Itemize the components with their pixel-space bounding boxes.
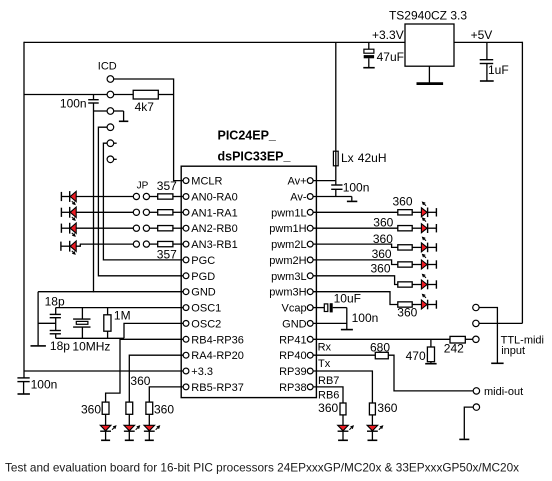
capacitor C3 1uF [480, 42, 494, 80]
wire D4 to jumper (jog) [76, 244, 133, 246]
resistor R7 360 [102, 402, 109, 414]
svg-text:TS2940CZ 3.3: TS2940CZ 3.3 [389, 9, 467, 23]
capacitor C1 100n (bottom left decoupling) [17, 378, 29, 394]
wire jumper to R5 [150, 243, 158, 245]
resistor R6 1M [104, 308, 111, 339]
ground (TTL input) [491, 362, 503, 364]
node AN3 header pin [60, 242, 62, 251]
wire header to D4 [61, 245, 70, 247]
resistor R19 242 [450, 336, 465, 343]
wire +3.3 rail to ICD pin2 [24, 94, 107, 96]
svg-text:RP39: RP39 [279, 366, 307, 378]
svg-text:100n: 100n [343, 180, 370, 194]
resistor R20 360 [369, 403, 375, 415]
LED D11 [421, 260, 427, 270]
svg-text:Vcap: Vcap [282, 303, 307, 315]
label 100n (Vcap net) [352, 311, 379, 325]
label Rx [318, 341, 332, 353]
wire Av- row [313, 197, 352, 201]
label R8 360 [130, 374, 150, 388]
wire D1 to jumper [76, 196, 133, 198]
svg-text:AN2-RB0: AN2-RB0 [191, 223, 237, 235]
arrow D1 light [72, 201, 75, 204]
ground (D14) [368, 439, 378, 441]
wire GND row [38, 291, 184, 293]
wire R15 to D13 [412, 304, 421, 306]
node AN2 header pin [60, 224, 62, 233]
wire R2 to pin [173, 196, 184, 198]
svg-text:360: 360 [370, 262, 390, 276]
svg-text:100n: 100n [352, 311, 379, 325]
LED D2 [70, 207, 77, 218]
svg-text:input: input [501, 345, 525, 357]
pin +3.3 (left 13) [183, 366, 213, 378]
svg-text:OSC2: OSC2 [191, 318, 221, 330]
jumper JP3 pins [133, 225, 149, 231]
svg-text:360: 360 [397, 305, 417, 319]
svg-text:Test and evaluation board for: Test and evaluation board for 16-bit PIC… [5, 461, 519, 475]
wire RA4 to R8 [129, 355, 183, 402]
wire pwm row 5 [313, 276, 398, 285]
svg-text:MCLR: MCLR [191, 176, 222, 188]
wire jumper to R2 [150, 196, 158, 198]
label ICD [98, 61, 117, 73]
label 680 [370, 340, 390, 354]
label R9 360 [154, 403, 174, 417]
pin pwm2L (right 5) [271, 239, 313, 251]
wire D3 to jumper [76, 227, 133, 229]
svg-text:RP41: RP41 [279, 334, 307, 346]
label RB7 [318, 375, 339, 387]
label R11 360 [373, 216, 393, 230]
op IC U1 PIC24EP/dsPIC33EP box [181, 166, 316, 397]
resistor R11 360 [398, 226, 412, 231]
wire jumper to R3 [150, 211, 158, 213]
wire R3 to pin [173, 211, 184, 213]
svg-text:18p: 18p [45, 294, 65, 308]
wire ICD pin4 to PGD [98, 127, 183, 276]
arrow D9 light [423, 218, 427, 222]
LED D3 [70, 223, 77, 234]
resistor R15 360 [398, 302, 412, 307]
wire OSC2 riser [124, 323, 184, 338]
resistor R18 470 [427, 347, 434, 362]
label R19 242 [444, 342, 464, 356]
wire D8 to header [428, 211, 437, 213]
wire R9 to D7 [148, 414, 150, 425]
wire R8 to D6 [128, 414, 130, 425]
caption text [5, 461, 519, 475]
svg-text:42uH: 42uH [358, 151, 387, 165]
pin AN3-RB1 (left 5) [183, 239, 238, 251]
label TTL-midi input [501, 335, 544, 357]
wire 18p branch top [55, 308, 57, 315]
resistor R3 357 [158, 210, 173, 215]
svg-text:pwm3L: pwm3L [271, 271, 306, 283]
wire junction down to C4 [93, 95, 95, 100]
regulator U2 TS2940CZ box [405, 24, 454, 66]
arrow D4 light [72, 251, 75, 254]
resistor R17 680 [375, 352, 388, 359]
svg-text:Av+: Av+ [288, 176, 307, 188]
svg-text:RB7: RB7 [318, 375, 339, 387]
LED D12 [421, 280, 427, 290]
wire pwm row 3 [313, 244, 398, 247]
wire +3.3V left rail [23, 42, 25, 378]
resistor R14 360 [398, 282, 412, 287]
wire R4 to pin [173, 227, 184, 229]
label R15 360 [397, 305, 417, 319]
svg-text:360: 360 [373, 232, 393, 246]
svg-text:Lx: Lx [341, 151, 354, 165]
wire R13 to D11 [412, 264, 421, 266]
node midi-out pin [473, 388, 479, 394]
wire R14 to D12 [412, 284, 421, 286]
svg-text:JP: JP [137, 180, 149, 191]
ground (Vcap/GND) [341, 329, 353, 331]
svg-text:RA4-RP20: RA4-RP20 [191, 350, 244, 362]
LED D7 [144, 425, 155, 431]
ground (D5) [101, 439, 110, 441]
pin RB5-RP37 (left 14) [183, 382, 244, 394]
wire D13 to header [428, 304, 437, 306]
connector J1 ICD (6 pins) [107, 76, 114, 163]
pin AN1-RA1 (left 3) [183, 207, 238, 219]
svg-text:4k7: 4k7 [135, 100, 155, 114]
arrow D2 light [72, 217, 75, 220]
ground (regulator) [417, 82, 444, 85]
svg-text:ICD: ICD [98, 61, 117, 73]
ground (Av-) [347, 200, 357, 202]
resistor R12 360 [398, 245, 412, 250]
wire RB5 to R9 [149, 387, 183, 402]
label +3.3V [372, 28, 404, 42]
resistor R5 357 [158, 241, 173, 246]
resistor R10 360 [398, 210, 412, 215]
wire pwm row 6 [313, 292, 398, 305]
label R12 360 [373, 232, 393, 246]
wire OSC1 row [56, 307, 184, 309]
svg-text:pwm2H: pwm2H [269, 255, 306, 267]
svg-text:10MHz: 10MHz [72, 340, 110, 354]
wire RP39 to R20 [313, 371, 372, 403]
svg-text:AN1-RA1: AN1-RA1 [191, 207, 237, 219]
svg-text:pwm1H: pwm1H [269, 223, 306, 235]
ground (below C1) [18, 393, 30, 395]
wire Vcap to C8 [313, 307, 324, 309]
resistor R21 360 [340, 403, 346, 415]
pin RP41 (right 11) [279, 334, 313, 346]
wire ICD pin6 stub [114, 158, 117, 160]
pin pwm1L (right 3) [271, 207, 313, 219]
node AN1 header pin [60, 208, 62, 217]
label C5 18p [45, 294, 65, 308]
pin pwm3L (right 7) [271, 271, 313, 283]
wire ICD pin5 stub [114, 142, 117, 144]
svg-text:47uF: 47uF [377, 50, 404, 64]
wire D6 to ground [128, 432, 130, 440]
pin MCLR (left 1) [183, 176, 222, 188]
label C4 100n [60, 96, 87, 110]
label RB6 [318, 390, 339, 402]
ground (below 1uF) [480, 80, 494, 82]
wire ground vertical [37, 292, 39, 346]
svg-text:360: 360 [373, 216, 393, 230]
capacitor C8 10uF (polarized) [324, 303, 332, 312]
svg-text:RP38: RP38 [279, 382, 307, 394]
label C8 10uF [334, 291, 361, 305]
pin pwm1H (right 4) [269, 223, 313, 235]
label R13 360 [372, 247, 392, 261]
wire ICD pin3 to VSS [94, 110, 107, 112]
wire GND row right [313, 322, 347, 324]
wire ICD pin3 ground stub [114, 111, 124, 121]
wire ICD pin2 to R1 [114, 94, 133, 96]
capacitor C7 100n (Av) [331, 181, 342, 197]
svg-text:360: 360 [377, 401, 397, 415]
LED D5 [100, 425, 111, 431]
svg-text:RB6: RB6 [318, 390, 339, 402]
wire RP41 Rx row [313, 338, 450, 340]
wire R10 to D8 [412, 211, 421, 213]
wire header to D1 [61, 196, 70, 198]
wire RP38 to R21 [313, 387, 343, 403]
wire regulator ground lead [428, 66, 430, 82]
wire 18p midpoint [38, 318, 56, 331]
LED D15 [338, 425, 349, 431]
LED D9 [421, 223, 427, 233]
svg-text:357: 357 [157, 179, 177, 193]
LED D10 [421, 243, 427, 253]
arrow D15 light [349, 426, 353, 430]
capacitor C4 100n (ICD/VDD) [88, 100, 99, 103]
LED D13 [421, 300, 427, 310]
svg-text:pwm1L: pwm1L [271, 207, 306, 219]
pin OSC2 (left 10) [183, 318, 221, 330]
label R7 360 [81, 403, 101, 417]
svg-text:242: 242 [444, 342, 464, 356]
label R18 470 [406, 349, 426, 363]
wire C8 to ground [333, 308, 347, 330]
pin GND (left 8) [183, 287, 216, 299]
label C6 18p [50, 339, 70, 353]
LED D4 [70, 241, 77, 252]
label R14 360 [370, 262, 390, 276]
label 357 (bottom) [157, 248, 177, 262]
arrow D5 light [112, 426, 116, 430]
wire R11 to D9 [412, 227, 421, 229]
pin Av+ (right 1) [288, 176, 314, 188]
svg-text:RP40: RP40 [279, 350, 307, 362]
label X1 10MHz [72, 340, 110, 354]
pin RA4-RP20 (left 12) [183, 350, 244, 362]
wire +3.3 row to chip pin [24, 370, 184, 372]
wire oscillator bottom rail [56, 337, 124, 339]
ground (midi-out) [459, 438, 469, 440]
svg-text:360: 360 [318, 401, 338, 415]
label C1 100n [31, 378, 58, 392]
wire header to D2 [61, 211, 70, 213]
label R10 360 [392, 195, 412, 209]
ground (D7) [145, 439, 154, 441]
ground (main left) [31, 345, 46, 347]
wire 242 to input pin [465, 338, 473, 340]
label U1 PIC24EP_ [218, 129, 277, 143]
arrow D3 light [72, 233, 75, 236]
svg-text:10uF: 10uF [334, 291, 361, 305]
svg-text:360: 360 [154, 403, 174, 417]
LED D8 [421, 208, 427, 218]
label +5V [471, 28, 493, 42]
svg-text:GND: GND [191, 287, 216, 299]
pin RP40 (right 12) [279, 350, 313, 362]
node pwm header pin 6 [435, 300, 437, 308]
label TS2940CZ 3.3 [389, 9, 467, 23]
svg-text:100n: 100n [31, 378, 58, 392]
svg-text:dsPIC33EP_: dsPIC33EP_ [218, 149, 292, 163]
wire R5 to pin [173, 243, 184, 245]
crystal X1 10MHz [73, 308, 90, 339]
wire D15 to ground [342, 432, 344, 440]
svg-text:AN0-RA0: AN0-RA0 [191, 192, 237, 204]
ground (below 47uF) [363, 67, 374, 69]
wire D10 to header [428, 246, 437, 248]
wire 18p branch bottom [55, 334, 57, 339]
LED D14 [367, 425, 378, 431]
wire D2 to jumper [76, 211, 133, 213]
label L1 Lx 42uH [341, 151, 386, 165]
svg-text:PIC24EP_: PIC24EP_ [218, 129, 277, 143]
wire D14 to ground [371, 432, 373, 440]
node pwm header pin 1 [435, 208, 437, 216]
svg-text:360: 360 [372, 247, 392, 261]
svg-text:360: 360 [81, 403, 101, 417]
label Tx [318, 358, 331, 370]
wire R7 to D5 [105, 414, 107, 425]
svg-text:pwm3H: pwm3H [269, 287, 306, 299]
svg-text:Av-: Av- [290, 192, 307, 204]
arrow D6 light [136, 426, 140, 430]
svg-text:GND: GND [282, 318, 307, 330]
arrow D13 light [423, 294, 427, 298]
node TTL-midi input pin 3 [473, 336, 479, 342]
arrow D14 light [379, 426, 383, 430]
label U1 dsPIC33EP_ [218, 149, 292, 163]
wire R18 470 branch [430, 339, 432, 347]
pin PGC (left 6) [183, 255, 215, 267]
node TTL-midi input pin 1 [473, 304, 479, 310]
wire R1 to MCLR net [158, 94, 173, 96]
node pwm header pin 5 [435, 280, 437, 288]
ground (D15) [338, 439, 348, 441]
pin pwm2H (right 6) [269, 255, 313, 267]
svg-text:Rx: Rx [318, 341, 332, 353]
wire R21 to D15 [342, 415, 344, 425]
pin Av- (right 2) [290, 192, 313, 204]
svg-text:360: 360 [392, 195, 412, 209]
wire ICD pin1 to MCLR [114, 79, 184, 181]
pin Vcap (right 9) [282, 303, 314, 315]
svg-text:+3.3V: +3.3V [372, 28, 404, 42]
wire header to D3 [61, 227, 70, 229]
resistor R2 357 [158, 194, 173, 199]
label 357 (top) [157, 179, 177, 193]
svg-text:1M: 1M [114, 308, 131, 322]
node pwm header pin 3 [435, 243, 437, 251]
label JP [137, 180, 149, 191]
node AN0 header pin [60, 192, 62, 201]
capacitor C6 18p [50, 331, 61, 334]
wire ICD pin5 to PGC [103, 143, 183, 260]
ground (ICD pin3) [119, 120, 128, 122]
pin RP39 (right 13) [279, 366, 313, 378]
wire Av+ row [313, 180, 336, 182]
wire R20 to D14 [371, 415, 373, 425]
wire +5V right rail [521, 42, 523, 324]
arrow D11 light [423, 254, 427, 258]
wire D9 to header [428, 227, 437, 229]
label R6 1M [114, 308, 131, 322]
arrow D7 light [156, 426, 160, 430]
wire jumper to R4 [150, 227, 158, 229]
svg-text:1uF: 1uF [488, 63, 509, 77]
wire D7 to ground [148, 432, 150, 440]
svg-text:PGC: PGC [191, 255, 215, 267]
resistor R13 360 [398, 262, 412, 267]
ground (470) [425, 363, 436, 365]
node TTL-midi input pin 2 [473, 320, 479, 326]
wire 470 to ground [430, 362, 432, 363]
resistor R8 360 [126, 402, 133, 414]
svg-text:357: 357 [157, 248, 177, 262]
svg-text:RB5-RP37: RB5-RP37 [191, 382, 244, 394]
pin PGD (left 7) [183, 271, 215, 283]
svg-text:pwm2L: pwm2L [271, 239, 306, 251]
wire VSS vertical to GND row [93, 103, 95, 292]
resistor R4 357 [158, 226, 173, 231]
inductor L1 Lx 42uH feed [333, 42, 338, 180]
label C2 47uF [377, 50, 404, 64]
label C7 100n [343, 180, 370, 194]
capacitor C5 18p [50, 314, 61, 317]
label midi-out [484, 386, 523, 398]
pin RB4-RP36 (left 11) [183, 334, 244, 346]
svg-text:100n: 100n [60, 96, 87, 110]
wire RP40 Tx to R17 [313, 354, 375, 356]
wire +5V output [454, 41, 522, 43]
pin AN2-RB0 (left 4) [183, 223, 238, 235]
resistor R1 4k7 [133, 90, 158, 99]
jumper JP2 pins [133, 209, 149, 215]
wire D11 to header [428, 264, 437, 266]
resistor R9 360 [146, 402, 153, 414]
svg-text:AN3-RB1: AN3-RB1 [191, 239, 237, 251]
svg-text:470: 470 [406, 349, 426, 363]
node midi-out ground pin [473, 404, 479, 410]
svg-text:OSC1: OSC1 [191, 303, 221, 315]
wire D5 to ground [105, 432, 107, 440]
svg-text:+3.3: +3.3 [191, 366, 213, 378]
wire input pin1 to ground [479, 308, 497, 363]
svg-text:Tx: Tx [318, 358, 331, 370]
wire R12 to D10 [412, 246, 421, 248]
wire RB4 to R7 [106, 339, 184, 402]
svg-text:360: 360 [130, 374, 150, 388]
svg-text:18p: 18p [50, 339, 70, 353]
label R1 4k7 [135, 100, 155, 114]
wire midi ground pin [464, 407, 473, 439]
svg-text:+5V: +5V [471, 28, 493, 42]
